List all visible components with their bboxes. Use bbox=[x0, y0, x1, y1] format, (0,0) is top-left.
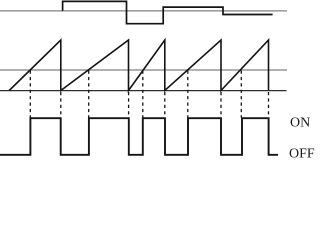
dashed line at crossing x=88.7 bbox=[88, 71, 90, 118]
svg-text:OFF: OFF bbox=[289, 147, 315, 160]
dashed line at peak x=221 bbox=[220, 92, 222, 118]
dashed line at crossing x=241.3 bbox=[240, 71, 242, 118]
dashed line at crossing x=30.3 bbox=[29, 71, 31, 118]
dashed line at crossing x=187.8 bbox=[187, 71, 189, 118]
sawtooth carrier waveform bbox=[9, 40, 268, 91]
dashed line at peak x=60.8 bbox=[60, 92, 62, 118]
dashed line at peak x=268.5 bbox=[268, 92, 270, 118]
grey reference line A (top, signal average level) bbox=[0, 10, 287, 12]
dashed line at peak x=128.6 bbox=[128, 92, 130, 118]
grey reference line B (comparator threshold) bbox=[0, 69, 287, 71]
dashed line at peak x=164.8 bbox=[164, 92, 166, 118]
baseline C (sawtooth zero line) bbox=[0, 90, 287, 92]
dashed line at crossing x=142.8 bbox=[142, 71, 144, 118]
svg-text:ON: ON bbox=[290, 116, 310, 131]
PWM output pulse waveform (bottom) bbox=[0, 118, 278, 155]
staircase sampled-signal waveform (top) bbox=[63, 1, 273, 23]
